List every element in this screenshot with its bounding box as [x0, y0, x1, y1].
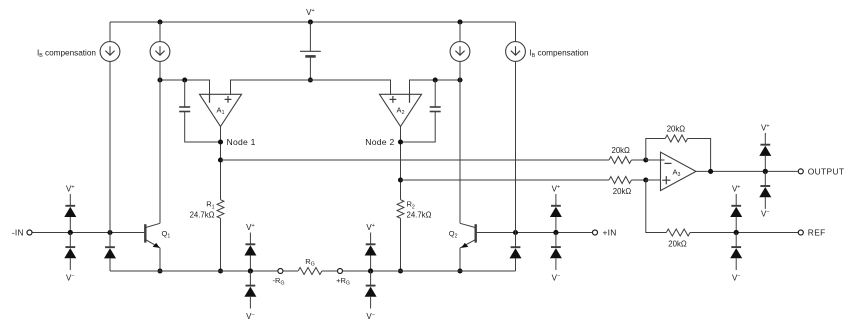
resistor RG: [283, 257, 337, 275]
resistor R1 24.7k&#937;: [190, 200, 224, 220]
wire A1 output to R1: [220, 127, 222, 200]
wire A1/A2 noninverting net: [231, 80, 391, 94]
wire R2 to emitter rail: [400, 218, 402, 271]
node Q1 emitter junction: [157, 268, 162, 273]
node top rail battery tap: [308, 19, 313, 24]
node rail cap tap x=435.2: [433, 77, 438, 82]
op-amp A1: [200, 94, 242, 126]
node A3 output junction: [708, 169, 713, 174]
wire A2 inverting net rail: [410, 80, 461, 94]
wire A1 inverting net rail: [160, 80, 210, 94]
resistor R2 24.7k&#937;: [397, 200, 431, 220]
wire Q1 collector to I2: [159, 61, 161, 223]
resistor R4 20k&#937; (noninverting input): [609, 177, 646, 197]
wire V+ top supply rail: [110, 21, 516, 23]
diode D6 (+IN to emitter rail): [510, 233, 522, 272]
wire A3 output: [696, 170, 798, 172]
node battery to input-net rail: [308, 77, 313, 82]
svg-text:24.7kΩ: 24.7kΩ: [407, 210, 432, 219]
wire I1 to -IN line: [109, 61, 111, 232]
node R1 bottom: [218, 268, 223, 273]
wire I4 to +IN line: [515, 61, 517, 232]
diode clamp stack at +RG: [365, 223, 377, 321]
capacitor C1: [179, 80, 220, 142]
label IB compensation right: [530, 49, 589, 60]
node A3 noninverting input: [643, 177, 648, 182]
node Node2 tap to A3: [398, 177, 403, 182]
svg-text:20kΩ: 20kΩ: [667, 125, 686, 134]
diode clamp stack at REF: [730, 185, 742, 283]
node Node1 tap to A3: [218, 157, 223, 162]
label IB compensation left: [37, 49, 96, 60]
transistor Q2: [449, 223, 476, 248]
node +IN clamp junction: [553, 230, 558, 235]
node top rail junction x=160: [157, 19, 162, 24]
resistor R6 20k&#937; (REF): [666, 229, 798, 248]
node clamp stack right on rail: [368, 268, 373, 273]
wire -IN to Q1 base: [32, 232, 144, 234]
current source I3: [450, 22, 470, 61]
terminal -IN: [12, 227, 32, 237]
wire Q2 emitter to rail: [459, 248, 461, 271]
svg-text:20kΩ: 20kΩ: [611, 146, 630, 155]
node rail cap tap x=184.7: [182, 77, 187, 82]
node R2 bottom: [398, 268, 403, 273]
wire emitter rail left: [110, 270, 278, 272]
transistor Q1: [145, 223, 170, 248]
svg-text:+IN: +IN: [603, 227, 617, 237]
node Node 2: [365, 137, 403, 147]
node -IN bias line junction: [107, 230, 112, 235]
wire Node1 to A3 inverting 20k: [221, 159, 610, 161]
wire Q2 collector to I3: [459, 61, 461, 223]
svg-text:OUTPUT: OUTPUT: [808, 166, 845, 176]
svg-text:Node 1: Node 1: [227, 137, 256, 147]
node rail x=460: [457, 77, 462, 82]
terminal -RG: [273, 269, 285, 287]
current source I1 (left IB compensation): [100, 22, 120, 61]
diode clamp stack at OUTPUT: [759, 123, 771, 218]
diode clamp stack at -IN: [64, 185, 76, 283]
wire R1 to emitter rail: [220, 218, 222, 271]
terminal +IN: [593, 227, 617, 237]
wire Q1 emitter to rail: [159, 248, 161, 271]
svg-text:-IN: -IN: [12, 227, 24, 237]
wire emitter rail right: [343, 270, 516, 272]
wire A2 output to R2: [400, 127, 402, 200]
node output clamp junction: [763, 169, 768, 174]
diode clamp stack at +IN: [550, 185, 562, 283]
node rail x=160: [157, 77, 162, 82]
node -IN clamp junction: [68, 230, 73, 235]
capacitor C2: [401, 80, 441, 142]
node top rail junction x=460: [457, 19, 462, 24]
battery V+ cell: [300, 22, 321, 80]
svg-text:REF: REF: [808, 227, 826, 237]
terminal +RG: [336, 269, 350, 287]
terminal OUTPUT: [798, 166, 844, 176]
diode clamp stack at -RG: [244, 223, 256, 321]
wire Q2 base to +IN: [477, 232, 592, 234]
current source I4 (right IB compensation): [506, 22, 526, 61]
node Node 1: [218, 137, 256, 147]
label V+ supply: [306, 8, 315, 17]
op-amp A3: [661, 152, 697, 190]
resistor R3 20k&#937; (inverting input): [609, 146, 646, 164]
wire Node2 to A3 noninverting 20k: [401, 179, 610, 181]
resistor R5 feedback 20k&#937;: [646, 125, 711, 172]
diode D5 (-IN to emitter rail): [104, 233, 116, 272]
op-amp A2: [380, 94, 422, 126]
node clamp stack left on rail: [248, 268, 253, 273]
svg-text:20kΩ: 20kΩ: [613, 187, 632, 196]
node +IN bias line junction: [513, 230, 518, 235]
current source I2: [150, 22, 170, 61]
svg-text:20kΩ: 20kΩ: [668, 239, 687, 248]
node REF clamp junction: [734, 230, 739, 235]
terminal REF: [798, 227, 825, 237]
wire A3 ref to 20k: [646, 180, 667, 233]
node Q2 emitter junction: [457, 268, 462, 273]
wire A3 input stubs: [646, 160, 665, 180]
node A3 inverting input: [643, 157, 648, 162]
svg-text:24.7kΩ: 24.7kΩ: [190, 210, 215, 219]
svg-text:Node 2: Node 2: [365, 137, 394, 147]
